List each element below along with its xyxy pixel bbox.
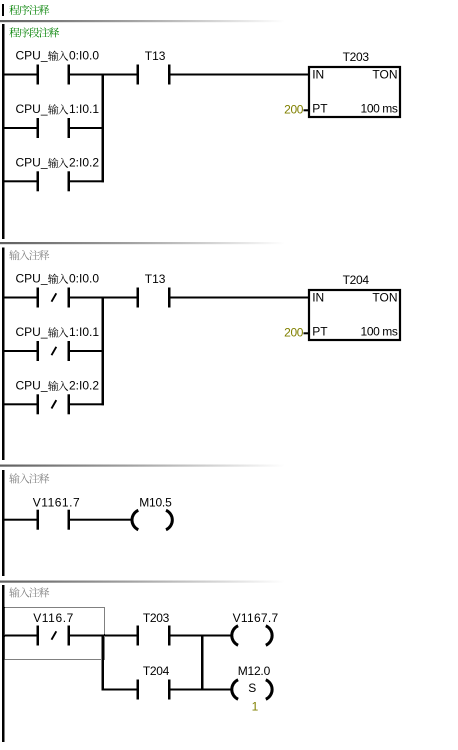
svg-text:CPU_: CPU_ <box>16 379 48 393</box>
svg-text:2:I0.2: 2:I0.2 <box>69 379 99 393</box>
contact T13 (normally open) <box>137 65 171 85</box>
branch junction vertical network 2 <box>102 297 105 406</box>
svg-text:100 ms: 100 ms <box>361 102 398 116</box>
wire T13 to timer box T203 <box>171 74 310 76</box>
network comment text 输入注释 (network 4) <box>9 587 49 597</box>
wire rail to contact I0.2 (network 2) <box>4 403 37 405</box>
svg-text:T204: T204 <box>143 664 170 678</box>
program comment text 程序注释 <box>9 5 49 15</box>
svg-text:200: 200 <box>284 102 304 116</box>
wire to junction (network 2) <box>70 350 104 352</box>
wire contact I0.0 to contact T13 (network 2) <box>70 297 137 299</box>
svg-text:M12.0: M12.0 <box>238 664 271 678</box>
svg-text:CPU_: CPU_ <box>16 156 48 170</box>
svg-text:IN: IN <box>312 291 324 305</box>
svg-text:1: 1 <box>252 700 259 714</box>
svg-text:IN: IN <box>312 68 324 82</box>
label CPU_输入0:I0.0 <box>16 48 100 62</box>
svg-text:TON: TON <box>372 68 397 82</box>
label CPU_输入2:I0.2 <box>16 156 100 170</box>
wire contact V116.7 to contact T203 <box>70 635 137 637</box>
PT pin stub (T204) <box>304 332 309 334</box>
svg-text:T13: T13 <box>145 272 166 286</box>
left power rail network 3 <box>2 470 5 576</box>
wire rail to contact I0.0 (network 2) <box>4 297 37 299</box>
timer box T204 <box>309 290 400 340</box>
program comment marker bar <box>2 4 4 16</box>
svg-text:PT: PT <box>312 325 328 339</box>
label CPU_输入0:I0.0 (network 2) <box>16 271 100 285</box>
wire contact I0.1 to junction <box>70 127 104 129</box>
svg-text:1:I0.1: 1:I0.1 <box>69 325 99 339</box>
svg-text:CPU_: CPU_ <box>16 271 48 285</box>
svg-text:2:I0.2: 2:I0.2 <box>69 156 99 170</box>
timer box T203 <box>309 67 400 117</box>
coil M10.5 <box>132 510 172 529</box>
left power rail network 4 <box>2 585 5 742</box>
branch junction vertical network 1 <box>102 74 105 183</box>
wire contact I0.2 to junction <box>70 180 104 182</box>
contact T13 network 2 (normally open) <box>137 288 171 308</box>
contact T203 (normally open) <box>137 626 171 646</box>
svg-text:T13: T13 <box>145 49 166 63</box>
svg-text:PT: PT <box>312 102 328 116</box>
wire rail to contact V1161.7 <box>4 519 37 521</box>
label CPU_输入2:I0.2 (network 2) <box>16 379 100 393</box>
svg-text:1:I0.1: 1:I0.1 <box>69 102 99 116</box>
label CPU_输入1:I0.1 (network 2) <box>16 325 100 339</box>
svg-text:100 ms: 100 ms <box>361 325 398 339</box>
wire T13 to timer box T204 <box>171 297 310 299</box>
separator line network 2 <box>0 242 300 244</box>
svg-text:T203: T203 <box>143 611 170 625</box>
svg-text:CPU_: CPU_ <box>16 48 48 62</box>
svg-text:0:I0.0: 0:I0.0 <box>69 271 99 285</box>
wire rail to contact V116.7 <box>4 635 37 637</box>
output junction vertical between rows <box>201 635 204 691</box>
network comment text 输入注释 (network 2) <box>9 250 49 260</box>
contact CPU_输入0:I0.0 (normally closed) <box>37 288 71 308</box>
svg-text:TON: TON <box>372 291 397 305</box>
separator line network 3 <box>0 465 300 467</box>
svg-text:V116.7: V116.7 <box>33 611 74 625</box>
wire rail to contact I0.2 <box>4 180 37 182</box>
contact CPU_输入2:I0.2 (normally closed) <box>37 394 71 414</box>
svg-text:200: 200 <box>284 325 304 339</box>
contact T204 (normally open) <box>137 680 171 700</box>
contact V1161.7 (normally open) <box>37 510 71 530</box>
network comment text 程序段注释 <box>9 27 59 37</box>
network comment text 输入注释 (network 3) <box>9 473 49 483</box>
separator line network 1 <box>0 20 300 22</box>
contact CPU_输入1:I0.1 (normally closed) <box>37 341 71 361</box>
wire rail to contact I0.1 (network 2) <box>4 350 37 352</box>
wire contact V1161.7 to coil M10.5 <box>70 519 132 521</box>
wire branch to contact T204 <box>104 689 137 691</box>
branch vertical to T204 row <box>102 635 105 691</box>
coil M12.0 (Set) <box>232 680 272 699</box>
contact CPU_输入1:I0.1 (normally open) <box>37 118 71 138</box>
svg-text:CPU_: CPU_ <box>16 102 48 116</box>
label CPU_输入1:I0.1 <box>16 102 100 116</box>
contact CPU_输入0:I0.0 (normally open) <box>37 65 71 85</box>
wire T203 to coil V1167.7 <box>171 635 234 637</box>
svg-text:M10.5: M10.5 <box>139 496 172 510</box>
PT pin stub <box>304 109 309 111</box>
left power rail network 1 <box>2 24 5 239</box>
wire rail to contact I0.0 <box>4 74 37 76</box>
contact CPU_输入2:I0.2 (normally open) <box>37 171 71 191</box>
svg-text:V1161.7: V1161.7 <box>33 496 80 510</box>
left power rail network 2 <box>2 248 5 461</box>
selection box (dotted) around contact V116.7 <box>5 608 105 660</box>
contact V116.7 (normally closed) <box>37 626 71 646</box>
wire rail to contact I0.1 <box>4 127 37 129</box>
wire to junction (network 2) <box>70 403 104 405</box>
svg-text:CPU_: CPU_ <box>16 325 48 339</box>
svg-text:0:I0.0: 0:I0.0 <box>69 48 99 62</box>
separator line network 4 <box>0 581 300 583</box>
wire contact I0.0 to contact T13 <box>70 74 137 76</box>
svg-text:T204: T204 <box>343 273 370 287</box>
svg-text:T203: T203 <box>343 50 370 64</box>
wire T204 to coil M12.0 <box>171 689 234 691</box>
coil V1167.7 <box>232 626 272 645</box>
svg-text:V1167.7: V1167.7 <box>233 611 279 625</box>
svg-text:S: S <box>248 681 256 695</box>
